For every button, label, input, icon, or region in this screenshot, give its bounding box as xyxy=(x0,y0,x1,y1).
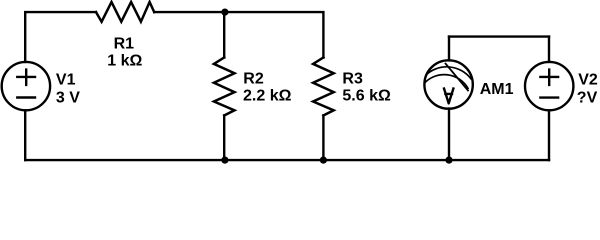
resistor R1 xyxy=(96,2,154,22)
junction node bottom R2 xyxy=(221,157,228,164)
resistor R3 xyxy=(313,58,334,116)
voltage source V2 circle xyxy=(525,62,573,110)
AM1 letter A (rotated 180) xyxy=(444,89,453,104)
AM1 meter scale arc outer xyxy=(425,67,471,79)
wire AM1-V2 top xyxy=(449,35,549,37)
V2 plus sign xyxy=(540,70,558,85)
wire V1 branch lower xyxy=(24,110,26,160)
svg-text:2.2 kΩ: 2.2 kΩ xyxy=(243,87,292,104)
wire R2 branch upper xyxy=(223,12,225,57)
junction node bottom R3 xyxy=(320,157,327,164)
wire R2 branch lower xyxy=(223,115,225,160)
V1 minus sign xyxy=(17,96,35,98)
resistor R2 xyxy=(214,58,235,116)
svg-text:1 kΩ: 1 kΩ xyxy=(107,53,142,70)
wire top-left (V1 top to R1 left) xyxy=(25,12,96,62)
AM1 needle xyxy=(446,64,469,91)
voltage source V1 circle xyxy=(2,62,50,110)
AM1 meter scale arc inner xyxy=(424,75,468,89)
svg-text:AM1: AM1 xyxy=(480,81,514,98)
V2 minus sign xyxy=(540,96,558,98)
junction node top (R1/R2) xyxy=(221,9,228,16)
wire V2 branch upper xyxy=(548,37,550,62)
svg-text:R2: R2 xyxy=(243,70,264,87)
wire V2 branch lower xyxy=(548,110,550,160)
svg-text:?V: ?V xyxy=(577,89,598,106)
V1 plus sign xyxy=(17,70,35,85)
wire top-right (R1 right to R3 top) xyxy=(154,12,323,57)
svg-text:R1: R1 xyxy=(114,35,135,52)
wire AM1 branch lower xyxy=(448,109,450,161)
wire bottom net xyxy=(25,159,549,161)
svg-text:5.6 kΩ: 5.6 kΩ xyxy=(342,87,391,104)
svg-text:3 V: 3 V xyxy=(56,89,80,106)
svg-text:V1: V1 xyxy=(56,72,76,89)
junction node bottom AM1 xyxy=(445,157,452,164)
svg-text:V2: V2 xyxy=(578,71,598,88)
wire R3 branch lower xyxy=(322,115,324,160)
ammeter AM1 circle xyxy=(424,60,472,108)
svg-text:R3: R3 xyxy=(342,70,363,87)
wire AM1 branch upper xyxy=(448,37,450,61)
